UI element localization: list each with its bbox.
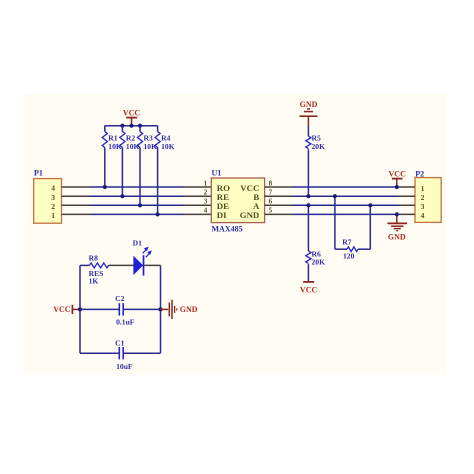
junction row5/GND: [395, 212, 399, 216]
junction row6/R6: [306, 203, 310, 207]
connector P1: [34, 169, 62, 224]
svg-text:1: 1: [51, 211, 55, 220]
svg-text:VCC: VCC: [300, 285, 318, 294]
svg-text:VCC: VCC: [123, 108, 141, 117]
svg-text:U1: U1: [212, 168, 222, 177]
junction on rail at R3: [138, 124, 142, 128]
svg-text:20K: 20K: [312, 258, 326, 267]
svg-text:VCC: VCC: [389, 170, 407, 179]
svg-text:10K: 10K: [161, 142, 175, 151]
svg-text:R1: R1: [108, 133, 117, 142]
svg-text:R3: R3: [144, 133, 153, 142]
bottom-left loop: right vertical wire: [160, 265, 162, 353]
ground symbol top: [300, 100, 318, 126]
svg-text:2: 2: [51, 202, 55, 211]
junction right vertical / C2 row: [158, 307, 162, 311]
svg-text:D1: D1: [133, 238, 142, 247]
junction row8/VCC: [395, 185, 399, 189]
svg-text:GND: GND: [388, 233, 406, 242]
VCC power symbol below R6: [300, 282, 318, 294]
wire row3 P1.2 to U1.DE: [90, 204, 184, 206]
junction row7/R7: [333, 194, 337, 198]
svg-text:GND: GND: [180, 305, 198, 314]
svg-text:2: 2: [421, 193, 425, 202]
VCC power symbol at P2: [389, 170, 407, 187]
svg-text:1: 1: [204, 179, 208, 187]
VCC power symbol left: [53, 305, 80, 314]
junction on rail at VCC stem: [129, 124, 133, 128]
svg-text:6: 6: [269, 198, 273, 206]
svg-text:DI: DI: [217, 210, 227, 220]
resistor R2: [120, 126, 140, 197]
svg-text:P1: P1: [34, 169, 43, 178]
svg-text:10K: 10K: [126, 142, 140, 151]
resistor R1: [102, 126, 122, 187]
wire row7 U1.B to P2.2: [293, 195, 399, 197]
svg-text:R7: R7: [342, 238, 351, 247]
capacitor C1: [80, 338, 161, 371]
junction on rail at R2: [120, 124, 124, 128]
op-amp U1 MAX485 body: [204, 168, 273, 233]
svg-text:2: 2: [204, 189, 208, 197]
wire row6 U1.A to P2.3: [293, 204, 399, 206]
svg-text:VCC: VCC: [53, 305, 71, 314]
resistor R8: [80, 253, 134, 285]
resistor R5: [306, 126, 325, 196]
wire row5 U1.GND to P2.4: [293, 213, 399, 215]
wire row8 U1.VCC to P2.1: [293, 186, 399, 188]
wire row2 P1.3 to U1.RE: [90, 195, 184, 197]
svg-text:5: 5: [269, 207, 273, 215]
svg-text:4: 4: [421, 211, 425, 220]
junction left vertical / VCC: [78, 307, 82, 311]
junction row1/R1: [103, 185, 107, 189]
svg-text:1K: 1K: [89, 276, 99, 285]
svg-text:7: 7: [269, 189, 273, 197]
junction row7/R5: [306, 194, 310, 198]
svg-text:GND: GND: [300, 100, 318, 109]
VCC rail wire: [105, 125, 158, 127]
svg-text:GND: GND: [240, 210, 260, 220]
resistor R7: [335, 196, 370, 260]
resistor R6: [306, 205, 325, 281]
bottom-left loop: left vertical wire: [79, 265, 81, 353]
svg-text:8: 8: [269, 179, 273, 187]
junction row6/R7: [368, 203, 372, 207]
svg-text:C1: C1: [115, 338, 124, 347]
svg-text:P2: P2: [415, 170, 424, 179]
P2 pin stubs: [399, 187, 416, 214]
junction row3/R3: [138, 203, 142, 207]
svg-text:10uF: 10uF: [116, 362, 133, 371]
U1 pin stubs right: [265, 187, 293, 214]
resistor R4: [155, 126, 175, 215]
junction row2/R2: [120, 194, 124, 198]
ground symbol at P2: [387, 214, 407, 241]
svg-text:C2: C2: [115, 294, 124, 303]
svg-text:3: 3: [204, 198, 208, 206]
svg-text:120: 120: [343, 251, 355, 260]
sheet background: [24, 94, 447, 375]
svg-text:3: 3: [421, 202, 425, 211]
ground symbol middle: [161, 300, 198, 319]
svg-text:0.1uF: 0.1uF: [116, 318, 135, 327]
svg-text:10K: 10K: [144, 142, 158, 151]
resistor R3: [137, 126, 157, 206]
junction row4/R4: [156, 212, 160, 216]
svg-text:4: 4: [51, 184, 55, 193]
svg-text:R8: R8: [89, 253, 98, 262]
LED arrows: [143, 249, 147, 254]
VCC power symbol top: [123, 108, 141, 125]
connector P2: [415, 170, 441, 223]
wire row1 P1.4 to U1.RO: [90, 186, 184, 188]
LED D1: [133, 238, 161, 275]
U1 pin stubs left: [184, 187, 212, 214]
wire row4 P1.1 to U1.DI: [90, 213, 184, 215]
svg-text:20K: 20K: [312, 142, 326, 151]
svg-text:MAX485: MAX485: [212, 224, 243, 233]
svg-text:3: 3: [51, 193, 55, 202]
svg-text:4: 4: [204, 207, 208, 215]
svg-text:1: 1: [421, 184, 425, 193]
svg-text:R2: R2: [126, 133, 135, 142]
svg-text:10K: 10K: [108, 142, 122, 151]
capacitor C2: [80, 294, 161, 327]
P1 pin stubs: [62, 187, 90, 214]
svg-text:R4: R4: [161, 133, 170, 142]
